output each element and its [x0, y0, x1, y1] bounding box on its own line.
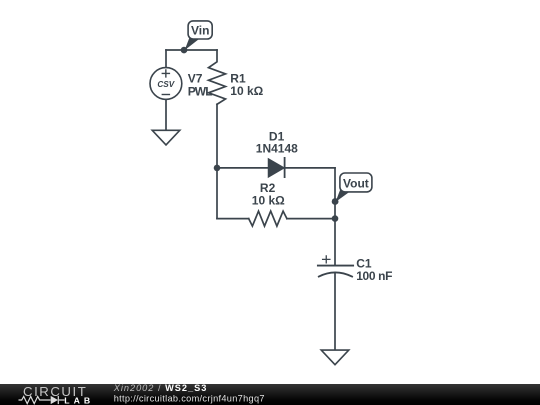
footer bar	[0, 384, 540, 405]
wire: Vout rail from diode row down to C1 top plate	[334, 168, 336, 266]
junction node: diode row / left rail	[214, 165, 221, 172]
svg-text:PWL: PWL	[188, 84, 213, 98]
wire: left rail R1 bottom down to R2 row	[216, 104, 218, 218]
svg-text:10 kΩ: 10 kΩ	[230, 84, 263, 98]
svg-text:1N4148: 1N4148	[256, 142, 298, 156]
wire: R2 row right lead to Vout rail	[287, 218, 335, 220]
wire: V7 bottom to ground	[165, 99, 167, 130]
wire: diode row right segment to Vout rail	[285, 167, 335, 169]
V7 plus sign	[162, 70, 169, 77]
svg-text:100 nF: 100 nF	[356, 269, 392, 283]
flag Vin box	[188, 21, 212, 39]
CircuitLab logo schematic line (resistor + diode)	[19, 396, 65, 404]
node dot: Vout attachment	[332, 198, 339, 205]
wire: C1 bottom to ground	[334, 273, 336, 350]
ground symbol GND1	[152, 130, 180, 145]
junction node: R2 row / Vout rail	[332, 215, 339, 222]
wire: left rail top segment into V7	[165, 50, 167, 68]
svg-text:CSV: CSV	[157, 80, 175, 89]
capacitor C1 plus sign	[323, 256, 330, 263]
V7 minus sign	[162, 94, 169, 96]
capacitor C1 top plate	[318, 265, 353, 267]
svg-text:Vout: Vout	[343, 176, 369, 190]
flag Vin pointer wedge	[185, 38, 200, 50]
CircuitLab logo diode triangle	[51, 396, 58, 404]
svg-text:Vin: Vin	[191, 24, 209, 38]
voltage source V7 circle	[150, 68, 182, 100]
diode D1 cathode bar	[284, 158, 286, 177]
svg-text:10 kΩ: 10 kΩ	[252, 193, 285, 207]
resistor R2 (horizontal zigzag)	[249, 211, 287, 226]
node dot: Vin attachment	[181, 47, 188, 54]
ground symbol GND2	[321, 350, 349, 365]
diode D1 anode triangle	[269, 159, 284, 176]
flag Vout box	[340, 173, 372, 192]
wire: Vin node top rail (x166..x217 at y50)	[166, 49, 217, 51]
flag Vout pointer wedge	[336, 190, 350, 202]
wire: diode row left segment	[217, 167, 269, 169]
capacitor C1 curved bottom plate	[319, 272, 352, 276]
wire: R2 row left lead	[217, 218, 249, 220]
resistor R1 (vertical zigzag at x217)	[209, 50, 226, 104]
